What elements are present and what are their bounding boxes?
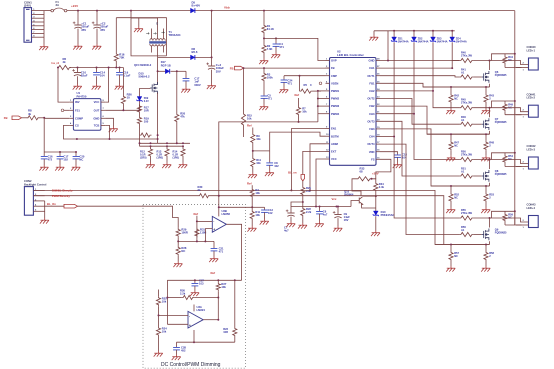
wire U2 pin ADIM (326, 143, 330, 145)
wire stack A junction (253, 150, 270, 152)
svg-text:P6KE15AC: P6KE15AC (381, 213, 395, 217)
zener ZD2 1N4744A (413, 30, 415, 32)
resistor R11 10k (250, 210, 254, 220)
capacitor C20 (75, 151, 77, 153)
capacitor C13 102 (252, 206, 264, 208)
svg-text:Ref: Ref (247, 181, 252, 185)
resistor R25 10k (158, 290, 160, 297)
ground C13 (260, 219, 269, 225)
op-amp U3A LM324 (188, 311, 203, 328)
wire LED+ tap ch2 (514, 100, 516, 102)
ground transformer shield (138, 18, 140, 27)
resistor R26 2.2k feedback (182, 295, 195, 299)
wire drain node ch2 (473, 107, 489, 109)
capacitor C6 4u7 (319, 207, 321, 212)
svg-text:CH2: CH2 (369, 89, 375, 93)
svg-text:Vcc: Vcc (332, 197, 337, 201)
wire EN1 from DIM1 (291, 129, 325, 191)
svg-text:EN1: EN1 (331, 127, 337, 131)
wire U2 GND to rail (380, 31, 388, 61)
ground C19 (115, 84, 124, 90)
wire CON1 pin 5 (32, 25, 45, 27)
wire U2B output (226, 224, 241, 280)
wire U2 pin FB2 (376, 105, 380, 107)
svg-text:4k: 4k (28, 112, 32, 116)
ground C18 (393, 163, 402, 169)
svg-text:OUT4: OUT4 (367, 142, 375, 146)
port FB (12, 116, 22, 120)
ground R57 (446, 266, 455, 272)
capacitor C10 (77, 67, 79, 69)
wire C3 top (211, 57, 213, 65)
svg-text:2.4k: 2.4k (379, 185, 385, 189)
ground C6 (315, 222, 324, 228)
ground C4 (271, 53, 280, 59)
wire clamp node (171, 70, 187, 72)
dashed box DC Control PWM Dimming (143, 205, 246, 369)
svg-text:35V: 35V (100, 28, 105, 32)
wire CON1 pin 4 (32, 21, 45, 23)
svg-text:A1: A1 (461, 71, 465, 75)
svg-text:GND: GND (369, 59, 375, 63)
wire ZD1 to channel 4 row (394, 42, 459, 218)
wire U2 pin VSEN (326, 82, 330, 84)
svg-text:Ref: Ref (194, 212, 199, 216)
svg-text:5069-6.2: 5069-6.2 (139, 75, 150, 79)
ground C5 (259, 105, 268, 111)
wire FB3 sense ch3 (380, 129, 490, 186)
wire DIM bus to PWM bridge (219, 122, 318, 196)
wire inverting feed (159, 314, 189, 316)
fuse F1 3A (51, 9, 54, 12)
svg-text:FQD8N25: FQD8N25 (495, 120, 507, 124)
wire R16 to FB rail (115, 63, 117, 68)
wire U2 pin CMP (326, 75, 330, 77)
resistor R12 0.1R sense (150, 142, 152, 144)
capacitor C24 471 (283, 76, 285, 80)
capacitor C28 452 (176, 342, 178, 347)
wire CON1 pin bus (43, 11, 45, 45)
svg-text:RGF-1B: RGF-1B (161, 63, 171, 67)
svg-text:FQD8N25: FQD8N25 (495, 73, 507, 77)
wire CON1 pin 2 (32, 13, 45, 15)
resistor R11a 10k (251, 157, 255, 168)
wire BL_On to R29 (78, 206, 179, 228)
ground C28 (172, 355, 181, 361)
capacitor C1 (electrolytic) (77, 10, 79, 12)
resistor R52 NC ch3 (450, 185, 452, 187)
wire D10 top (375, 196, 377, 211)
wire OUT4 gate row ch4 (380, 144, 459, 234)
svg-text:LED B/L Controller: LED B/L Controller (337, 53, 365, 57)
svg-text:3A: 3A (56, 3, 60, 7)
resistor R7 10k (298, 98, 300, 106)
ground R11a (248, 173, 257, 179)
ground R22 (298, 223, 307, 229)
wire U2 pin PWM3 (326, 105, 330, 107)
wire U2 VCC (316, 159, 326, 207)
wire drain ch2 (489, 108, 491, 118)
resistor R5 0 (299, 75, 301, 77)
capacitor C21 471 (213, 241, 215, 248)
svg-text:DIM/BL Directly: DIM/BL Directly (52, 189, 73, 193)
transformer T1 (150, 39, 166, 46)
wire U1 pin GND (101, 117, 105, 119)
connector CON2 Backlight Control (24, 187, 33, 216)
wire DIM line 2 (33, 195, 198, 197)
svg-text:630V: 630V (194, 83, 200, 87)
wire U2 pin CH2 (376, 90, 380, 92)
svg-text:FQD8N25: FQD8N25 (495, 230, 507, 234)
ground R13 (162, 163, 171, 169)
svg-text:NC: NC (454, 144, 458, 148)
wire U2 pin PWM1 (326, 90, 330, 92)
wire LED+ tap ch3 (514, 152, 516, 154)
resistor R34 2.4k (372, 179, 376, 182)
wire U2 pin BSTM (326, 135, 330, 137)
ground R47 (446, 156, 455, 162)
svg-text:CH1: CH1 (369, 66, 375, 70)
svg-text:OUT2: OUT2 (367, 97, 375, 101)
svg-text:10k: 10k (255, 191, 260, 195)
wire sense row ch3 (431, 185, 490, 187)
svg-text:10: 10 (127, 96, 131, 100)
svg-text:10R: 10R (144, 108, 149, 112)
wire CMP (284, 75, 326, 77)
resistor R30 2k (198, 194, 210, 198)
wire CON43 pin1 (516, 224, 529, 226)
wire feedback left (167, 297, 181, 299)
connector CON40 LED1 (529, 58, 539, 70)
svg-text:FQD8N25: FQD8N25 (495, 172, 507, 176)
svg-text:CS: CS (75, 124, 79, 128)
wire PWM bridge (317, 91, 319, 122)
wire drain ch4 (489, 218, 491, 228)
wire U1 CS (64, 125, 158, 139)
capacitor C14 (96, 67, 98, 69)
svg-text:1N4744A: 1N4744A (418, 39, 429, 43)
ground CON1 (39, 45, 48, 51)
svg-text:4u7: 4u7 (323, 213, 328, 217)
svg-text:Ref: Ref (295, 93, 300, 97)
wire +24V rail (67, 10, 515, 12)
capacitor C15 clamp (185, 71, 187, 78)
svg-text:NC: NC (79, 157, 83, 161)
svg-text:BL_On: BL_On (47, 202, 56, 206)
resistor R41 A1 gate ch1 (459, 75, 473, 79)
svg-text:B5.6: B5.6 (192, 50, 198, 54)
svg-text:FB: FB (230, 66, 234, 70)
wire CON40 pin1 (516, 67, 529, 69)
resistor R51 A1 gate ch3 (459, 174, 473, 178)
zener ZD3 1N4744A (432, 30, 434, 32)
resistor R6 4k (57, 65, 71, 69)
svg-text:7.3K: 7.3K (267, 47, 273, 51)
wire U1 COMP to FB port (44, 117, 69, 119)
wire ADIM staircase (310, 144, 326, 191)
ground R43 (481, 109, 490, 115)
ground R2 (259, 59, 268, 65)
svg-text:100k: 100k (267, 75, 273, 79)
svg-text:(24V): (24V) (24, 3, 31, 7)
svg-text:PWM4: PWM4 (331, 112, 340, 116)
svg-text:10k: 10k (306, 189, 311, 193)
diode D7 snubber (158, 70, 166, 72)
svg-text:LM324: LM324 (197, 308, 206, 312)
svg-text:Ref: Ref (211, 271, 216, 275)
resistor R46 A1 gate ch2 (459, 122, 473, 126)
svg-text:INV: INV (75, 100, 80, 104)
svg-text:NC: NC (454, 97, 458, 101)
ground C10 (73, 84, 82, 90)
wire CON42 pin2 (490, 160, 529, 164)
svg-text:Ref: Ref (247, 124, 252, 128)
svg-text:471: 471 (219, 249, 224, 253)
ground C14 (92, 84, 101, 90)
ground C24 (279, 88, 288, 94)
svg-text:10k: 10k (162, 330, 167, 334)
svg-text:LM358: LM358 (222, 212, 231, 216)
svg-text:-: - (213, 220, 214, 224)
resistor R21 10k (301, 186, 305, 196)
svg-text:1N4744A: 1N4744A (456, 39, 467, 43)
wire zener rail (374, 30, 455, 32)
capacitor C4 275 (275, 37, 277, 39)
svg-text:COMP: COMP (75, 116, 83, 120)
wire source ch4 (489, 241, 491, 244)
transistor Q6 FQD8N25 (482, 71, 489, 83)
wire OVP (264, 38, 326, 60)
connector CON42 LED3 (529, 157, 539, 169)
wire U1 TCB (105, 125, 109, 139)
wire OUT3 gate row ch3 (380, 121, 459, 176)
capacitor C19 (119, 67, 121, 69)
resistor R1 64.1K (263, 10, 265, 12)
ground zener rail (369, 35, 378, 41)
resistor R47 NC ch2 (450, 133, 452, 135)
wire sense row ch1 (423, 86, 490, 88)
wire secondary to D6 (158, 56, 191, 58)
svg-text:1N4744A: 1N4744A (437, 39, 448, 43)
resistor R15 10k FB lower divider (243, 67, 245, 69)
wire R34 bottom to collector (363, 192, 376, 196)
wire non-inverting input (205, 229, 212, 242)
svg-text:(1R0): (1R0) (140, 156, 147, 160)
capacitor C8 102 (269, 151, 271, 163)
svg-text:TCB: TCB (94, 124, 100, 128)
resistor R43 2 ch1 (485, 86, 487, 88)
svg-text:Q15 FB0646-2: Q15 FB0646-2 (134, 63, 152, 67)
wire ZD3 to channel 2 row (433, 42, 459, 108)
wire U3A output (203, 319, 218, 321)
ground R53 (481, 208, 490, 214)
wire Q1 source (157, 93, 159, 144)
svg-text:100R: 100R (181, 230, 187, 234)
wire CON42 pin1 (516, 166, 529, 168)
wire Q10 base (351, 201, 357, 207)
wire Ref to opamp supply (219, 206, 252, 208)
wire DIM line 2 cont (210, 196, 444, 245)
svg-text:FB1: FB1 (369, 81, 375, 85)
resistor R16 75K (114, 53, 118, 63)
resistor R26 10 (122, 68, 124, 96)
svg-text:PWM Directly: PWM Directly (52, 194, 70, 198)
wire CON41 pin2 (490, 108, 529, 112)
svg-text:NC: NC (454, 254, 458, 258)
wire T1 to Q1 drain (157, 57, 159, 84)
wire CON2 gnd pins (44, 201, 46, 218)
wire drain node ch3 (473, 159, 489, 161)
resistor R56 A1 gate ch4 (459, 232, 473, 236)
svg-text:LED+3: LED+3 (527, 147, 536, 151)
resistor R24 10k (156, 327, 160, 337)
ground R58 (481, 266, 490, 272)
svg-text:472: 472 (48, 157, 53, 161)
svg-text:OUT3: OUT3 (367, 119, 375, 123)
svg-text:10k: 10k (221, 285, 226, 289)
svg-text:BL_on: BL_on (288, 171, 297, 175)
svg-text:+: + (189, 323, 191, 327)
svg-text:LED+1: LED+1 (527, 48, 536, 52)
svg-text:103: 103 (199, 282, 204, 286)
svg-text:Vbb: Vbb (224, 5, 230, 9)
wire Q10 emitter to D10 (362, 204, 376, 208)
svg-text:1N4744A: 1N4744A (398, 39, 409, 43)
wire T1 bottom leads (151, 45, 153, 52)
resistor R14 0.1R sense (182, 142, 184, 144)
wire U1 OUT to gate network (105, 109, 139, 111)
wire CON40 pin2 (490, 61, 529, 65)
wire CON2 pin 1 (33, 189, 44, 191)
svg-text:2.2k: 2.2k (180, 292, 186, 296)
svg-text:452: 452 (181, 348, 186, 352)
wire aux winding feed (115, 18, 117, 53)
capacitor C9 14uF 16V (337, 207, 339, 215)
ground C17 (55, 165, 64, 171)
wire DIM line 1 (33, 190, 489, 244)
wire U2 pin FB1 (376, 82, 380, 84)
wire sense row ch2 (427, 133, 490, 135)
ground U1 (109, 127, 118, 133)
svg-text:4u7: 4u7 (284, 229, 289, 233)
capacitor C18 104 (380, 152, 398, 155)
wire ZD4 to channel 1 row (452, 42, 459, 60)
resistor R27 10k (217, 280, 219, 282)
resistor R29 100R (176, 228, 180, 238)
wire LED+ rail (514, 11, 516, 225)
svg-text:102: 102 (63, 157, 68, 161)
wire source ch2 (489, 131, 491, 134)
svg-text:16V: 16V (344, 218, 349, 222)
ground C9 (333, 226, 342, 232)
svg-text:471: 471 (288, 82, 293, 86)
svg-text:2.2k: 2.2k (306, 210, 312, 214)
svg-text:2TKx.3W: 2TKx.3W (461, 101, 473, 105)
wire CON43 pin2 (490, 218, 529, 222)
svg-text:VCC: VCC (94, 100, 100, 104)
svg-text:-: - (189, 315, 190, 319)
wire COMP comp network (43, 118, 45, 152)
wire U1 GND (105, 118, 113, 126)
resistor R57 NC ch4 (450, 244, 452, 246)
op-amp U2B LM358 (212, 216, 226, 232)
ground C1 (73, 44, 82, 50)
svg-text:NC: NC (454, 196, 458, 200)
wire sense row ch4 (435, 244, 490, 246)
wire Ref to inverting input (196, 216, 198, 242)
svg-text:2k: 2k (198, 188, 201, 192)
wire transformer loop left (130, 10, 132, 12)
svg-text:A1: A1 (461, 170, 465, 174)
svg-text:6.2V: 6.2V (144, 100, 149, 103)
port FB input (235, 66, 244, 70)
wire U2 pin CH1 (376, 67, 380, 69)
resistor R49 NC parallel ch2 (492, 101, 515, 108)
ground C2 (92, 44, 101, 50)
transistor Q7 FQD8N25 (482, 118, 489, 130)
wire U2 pin OUT4 (376, 143, 380, 145)
resistor R23 10R (234, 280, 236, 327)
wire U1 pin FS1 (69, 109, 73, 111)
resistor R31 110R (195, 228, 199, 238)
resistor R28 NC (177, 241, 179, 246)
wire CON2 pin 3 (33, 200, 44, 202)
wire EXT from BL_on (303, 151, 326, 174)
wire drain ch1 (489, 61, 491, 71)
wire U2 pin FS (376, 158, 380, 160)
zener ZD4 1N4744A (451, 30, 453, 32)
svg-text:2TKx.3W: 2TKx.3W (461, 53, 473, 57)
capacitor C17 (59, 151, 61, 153)
resistor R40 2TK 0.3W channel 1 (459, 58, 473, 62)
svg-text:FS1: FS1 (75, 108, 80, 112)
wire T1 top leads (151, 29, 153, 40)
svg-text:102: 102 (274, 164, 279, 168)
svg-text:0.1uF: 0.1uF (123, 74, 131, 78)
svg-text:CMP: CMP (331, 74, 337, 78)
svg-text:82uF: 82uF (81, 74, 88, 78)
wire T1 primary top feed (131, 18, 158, 25)
svg-text:A1: A1 (461, 228, 465, 232)
resistor R18 100 (140, 133, 152, 137)
wire non-inverting feed (167, 323, 188, 325)
svg-text:ADIM: ADIM (331, 142, 339, 146)
resistor R17 10R (137, 105, 141, 114)
svg-text:BSTM: BSTM (331, 134, 339, 138)
connector CON43 LED4 (529, 216, 539, 228)
wire source ch3 (489, 183, 491, 186)
wire Vbb to C3 node (211, 11, 213, 58)
wire R33 left to collector (352, 179, 361, 196)
svg-text:R5: R5 (304, 83, 308, 87)
wire FB2 sense ch2 (380, 106, 490, 134)
resistor R58 2 ch4 (485, 244, 487, 246)
resistor R13 0.1R sense (166, 142, 168, 144)
wire source ch1 (489, 84, 491, 87)
wire U1 VCC up (105, 68, 109, 103)
resistor R50 2TK 0.3W channel 3 (459, 157, 473, 161)
svg-text:NC: NC (181, 249, 185, 253)
ground C8 (265, 171, 274, 177)
resistor R59 NC parallel ch4 (492, 211, 515, 218)
svg-text:A1: A1 (461, 118, 465, 122)
svg-text:68: 68 (360, 170, 363, 174)
svg-text:+24V: +24V (71, 4, 78, 8)
wire U1 pin VCC (101, 101, 105, 103)
no-connect VSEN (319, 82, 322, 85)
wire CON2 pin4 BL_on (45, 205, 64, 207)
svg-text:Iss_rd: Iss_rd (52, 61, 60, 65)
